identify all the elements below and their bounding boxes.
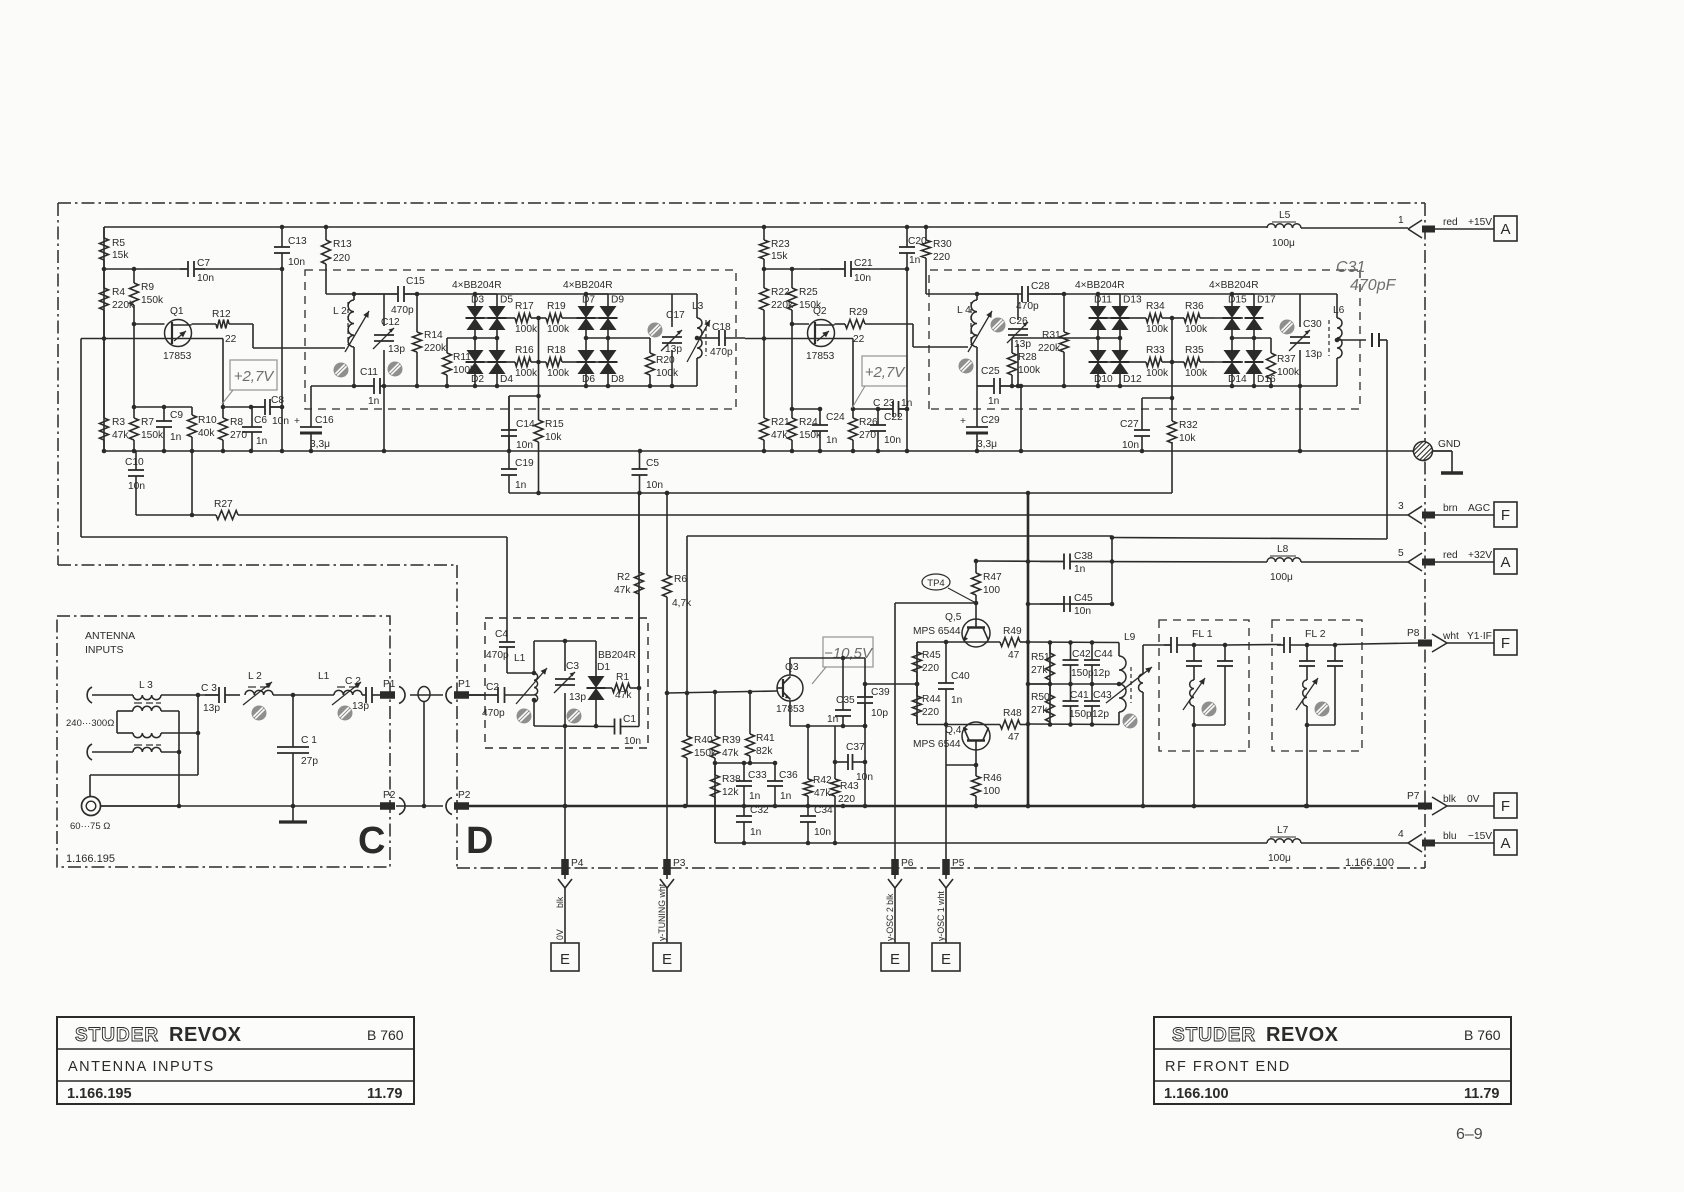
trimmer adjustment	[959, 359, 974, 374]
varactor diode D3	[466, 295, 485, 331]
svg-text:C3: C3	[566, 661, 579, 672]
svg-text:wht: wht	[1442, 631, 1459, 642]
resistor R45	[913, 642, 942, 684]
svg-text:D12: D12	[1123, 374, 1142, 385]
test point TP4	[922, 574, 976, 603]
module E reference box	[881, 943, 909, 971]
trimmer adjustment	[1280, 320, 1295, 335]
wire C31 feedback line	[1386, 340, 1388, 539]
wire L6 tap to C31	[1335, 338, 1340, 343]
capacitor C42	[1063, 643, 1094, 685]
svg-text:1n: 1n	[750, 827, 761, 838]
resistor R32	[1168, 398, 1199, 444]
svg-text:D16: D16	[1257, 374, 1276, 385]
svg-text:1n: 1n	[170, 432, 181, 443]
svg-text:220k: 220k	[424, 343, 447, 354]
svg-text:3: 3	[1398, 501, 1404, 512]
resistor R51	[1031, 642, 1055, 684]
capacitor C27	[1120, 398, 1150, 451]
resistor R14	[413, 294, 447, 386]
svg-text:220: 220	[333, 253, 350, 264]
svg-text:R22: R22	[771, 287, 790, 298]
svg-text:blk: blk	[1443, 794, 1457, 805]
svg-text:R41: R41	[756, 733, 775, 744]
svg-text:E: E	[941, 951, 951, 968]
node varactor mid tie	[586, 337, 608, 339]
resistor R48	[1000, 708, 1028, 743]
svg-text:R27: R27	[214, 499, 233, 510]
svg-text:1.166.100: 1.166.100	[1164, 1086, 1229, 1102]
capacitor C6	[242, 407, 267, 451]
svg-text:150p: 150p	[1071, 668, 1094, 679]
capacitor C34	[800, 805, 833, 843]
svg-text:1n: 1n	[368, 396, 379, 407]
coax connector 60-75 ohm	[70, 797, 110, 833]
inductor L1 variable	[514, 653, 538, 702]
capacitor C24	[812, 409, 845, 451]
capacitor C2a	[345, 676, 380, 712]
svg-text:100μ: 100μ	[1270, 572, 1293, 583]
svg-text:40k: 40k	[198, 428, 215, 439]
svg-text:10n: 10n	[1122, 440, 1139, 451]
svg-text:C2: C2	[486, 682, 499, 693]
wire R51/R50	[1028, 683, 1050, 685]
svg-text:P2: P2	[458, 790, 471, 801]
svg-text:10n: 10n	[516, 440, 533, 451]
capacitor C37	[835, 742, 873, 783]
wire FL2 bottom rail	[1306, 706, 1308, 725]
inductor FL2 variable	[1303, 680, 1307, 706]
svg-text:R50: R50	[1031, 692, 1050, 703]
svg-text:5: 5	[1398, 548, 1404, 559]
varactor diode D8	[599, 350, 625, 385]
wire -15V rail	[715, 842, 1267, 844]
svg-text:47k: 47k	[614, 585, 631, 596]
capacitor C45	[1040, 593, 1112, 617]
svg-text:C45: C45	[1074, 593, 1093, 604]
svg-text:MPS 6544: MPS 6544	[913, 739, 961, 750]
svg-text:R7: R7	[141, 417, 154, 428]
svg-text:C37: C37	[846, 742, 865, 753]
svg-text:+2,7V: +2,7V	[865, 364, 907, 381]
svg-text:Q3: Q3	[785, 662, 799, 673]
inductor L8	[1267, 544, 1301, 583]
trimmer adjustment	[334, 363, 349, 378]
wire P4 drop	[564, 726, 566, 859]
varactor diode D16	[1245, 350, 1277, 385]
resistor R36	[1172, 301, 1215, 335]
svg-text:R4: R4	[112, 287, 125, 298]
svg-text:+: +	[294, 416, 300, 427]
svg-text:150k: 150k	[141, 430, 164, 441]
resistor R47	[972, 561, 1003, 603]
wire FL1 bottom rail	[1193, 706, 1195, 725]
resistor R9	[130, 269, 164, 324]
svg-text:GND: GND	[1438, 439, 1461, 450]
connector P7 blk 0V	[1407, 791, 1494, 815]
resistor R44	[913, 684, 942, 724]
inductor L9 secondary	[1139, 645, 1144, 806]
wire C26 column	[1017, 294, 1019, 320]
trimmer adjustment	[517, 709, 532, 724]
capacitor C2	[468, 682, 534, 719]
svg-text:47k: 47k	[615, 690, 632, 701]
ground bar under C1	[292, 806, 294, 822]
capacitor C11	[354, 367, 384, 407]
svg-text:10k: 10k	[1179, 433, 1196, 444]
resistor R25	[788, 269, 822, 324]
svg-text:R24: R24	[799, 417, 818, 428]
svg-text:6–9: 6–9	[1456, 1126, 1483, 1143]
svg-text:D8: D8	[611, 374, 624, 385]
svg-text:A: A	[1500, 554, 1510, 571]
svg-text:D11: D11	[1094, 295, 1112, 306]
svg-text:R14: R14	[424, 330, 443, 341]
inductor L2 antenna variable	[245, 671, 273, 695]
svg-text:−10,5V: −10,5V	[824, 645, 874, 662]
variable capacitor C3	[554, 661, 586, 703]
svg-text:10n: 10n	[197, 273, 214, 284]
svg-text:100k: 100k	[547, 324, 570, 335]
varactor diode D11	[1089, 295, 1113, 331]
capacitor C13	[274, 227, 307, 451]
inductor FL1 variable	[1190, 680, 1194, 706]
wire R45/R44 divider	[916, 642, 918, 724]
svg-text:10n: 10n	[884, 435, 901, 446]
connector P8 wht Y1·IF	[1407, 628, 1494, 652]
capacitor C15	[354, 276, 425, 316]
capacitor C41	[1063, 684, 1092, 725]
svg-text:P3: P3	[673, 858, 686, 869]
capacitor C16	[294, 386, 334, 451]
svg-text:+15V: +15V	[1468, 217, 1492, 228]
capacitor C21	[820, 258, 873, 284]
svg-text:C18: C18	[712, 322, 731, 333]
svg-text:P6: P6	[901, 858, 914, 869]
wire balanced link	[161, 710, 179, 712]
wire	[585, 330, 587, 350]
svg-text:10n: 10n	[646, 480, 663, 491]
wire tie to R11	[447, 337, 475, 339]
svg-text:y-OSC 1 wht: y-OSC 1 wht	[936, 891, 946, 941]
connector box F	[1494, 793, 1517, 818]
svg-text:47k: 47k	[722, 748, 739, 759]
svg-text:E: E	[662, 951, 672, 968]
inductor L3 secondary lower	[117, 731, 200, 738]
wire tank2 bottom rail	[977, 385, 994, 387]
svg-text:C11: C11	[360, 367, 378, 378]
svg-text:100μ: 100μ	[1272, 238, 1295, 249]
capacitor C8	[251, 395, 289, 427]
svg-text:4,7k: 4,7k	[672, 598, 692, 609]
svg-text:R36: R36	[1185, 301, 1204, 312]
svg-text:C28: C28	[1031, 281, 1050, 292]
svg-text:R15: R15	[545, 419, 564, 430]
wire TP4 feed	[895, 602, 976, 604]
trimmer adjustment	[648, 323, 663, 338]
svg-text:R18: R18	[547, 345, 566, 356]
varactor diode D7	[577, 295, 596, 331]
wire	[1097, 294, 1099, 306]
svg-text:Q2: Q2	[813, 306, 827, 317]
node varactor mid tie	[1232, 337, 1254, 339]
wire R38 drop corner	[714, 763, 716, 843]
svg-text:C17: C17	[666, 310, 685, 321]
wire R9 column	[133, 324, 135, 407]
wire C19/C5 rail	[509, 492, 1172, 494]
wire Q3 base line	[667, 691, 777, 693]
svg-text:13p: 13p	[665, 344, 682, 355]
node bias rail1	[134, 406, 192, 408]
svg-text:10n: 10n	[814, 827, 831, 838]
svg-text:1n: 1n	[951, 695, 962, 706]
capacitor C39	[857, 684, 890, 726]
svg-text:C7: C7	[197, 258, 210, 269]
svg-text:C42: C42	[1072, 649, 1091, 660]
svg-text:R9: R9	[141, 282, 154, 293]
svg-text:R42: R42	[813, 775, 832, 786]
svg-text:D15: D15	[1228, 295, 1247, 306]
wire	[1097, 374, 1099, 386]
svg-text:R32: R32	[1179, 420, 1198, 431]
svg-text:R38: R38	[722, 774, 741, 785]
svg-text:470p: 470p	[1016, 301, 1039, 312]
svg-text:RF FRONT END: RF FRONT END	[1165, 1059, 1291, 1075]
svg-text:100k: 100k	[1146, 368, 1169, 379]
svg-text:1.166.195: 1.166.195	[67, 1086, 132, 1102]
svg-text:470p: 470p	[710, 347, 733, 358]
svg-text:R21: R21	[771, 417, 790, 428]
svg-text:D10: D10	[1094, 374, 1113, 385]
capacitor C29	[960, 386, 1000, 451]
svg-text:R33: R33	[1146, 345, 1165, 356]
resistor R15	[534, 396, 564, 493]
wire	[585, 294, 587, 306]
svg-text:C25: C25	[981, 366, 1000, 377]
svg-text:C1: C1	[623, 714, 636, 725]
wire Q2 source line	[745, 338, 853, 340]
svg-text:3,3μ: 3,3μ	[310, 439, 330, 450]
ground GND terminal	[1413, 439, 1464, 473]
svg-text:Y1·IF: Y1·IF	[1467, 631, 1492, 642]
svg-text:y-TUNING wht: y-TUNING wht	[657, 883, 667, 941]
wire tank2 ground drop	[1020, 386, 1022, 451]
wire tank1 ground drop	[383, 386, 385, 451]
svg-text:D7: D7	[582, 295, 595, 306]
svg-text:C15: C15	[406, 276, 425, 287]
resistor R21	[760, 338, 791, 451]
svg-text:R17: R17	[515, 301, 534, 312]
svg-text:AGC: AGC	[1468, 503, 1490, 514]
svg-text:R19: R19	[547, 301, 566, 312]
wire P1 entry	[468, 694, 498, 696]
varactor diode D17	[1245, 295, 1277, 331]
wire R25 column	[791, 324, 793, 409]
wire tank2 ground drop right	[1299, 386, 1301, 451]
wire tie to R20	[608, 337, 650, 339]
svg-text:R51: R51	[1031, 652, 1050, 663]
svg-text:100k: 100k	[656, 368, 679, 379]
resistor R4	[100, 269, 135, 338]
resistor R41	[746, 692, 776, 763]
wire	[474, 374, 476, 386]
svg-text:E: E	[560, 951, 570, 968]
wire coax to bus	[100, 805, 180, 807]
capacitor C22	[870, 409, 903, 451]
svg-text:10n: 10n	[1074, 606, 1091, 617]
wire inner right column	[638, 618, 640, 727]
capacitor C5	[632, 451, 664, 493]
svg-text:0V: 0V	[555, 929, 565, 940]
capacitor C25	[977, 366, 1018, 407]
svg-text:100μ: 100μ	[1268, 853, 1291, 864]
svg-text:100: 100	[983, 786, 1000, 797]
svg-text:REVOX: REVOX	[169, 1024, 242, 1046]
svg-text:150k: 150k	[141, 295, 164, 306]
resistor R17	[507, 301, 539, 335]
svg-text:13p: 13p	[203, 703, 220, 714]
svg-text:A: A	[1500, 835, 1510, 852]
svg-text:13p: 13p	[569, 692, 586, 703]
wire patch to 0V	[423, 702, 425, 807]
wire L9 secondary to FL1	[1143, 644, 1171, 646]
varactor diode D1	[587, 676, 606, 700]
svg-text:R40: R40	[694, 735, 713, 746]
wire	[1097, 330, 1099, 350]
svg-text:C6: C6	[254, 415, 267, 426]
svg-text:E: E	[890, 951, 900, 968]
svg-text:C19: C19	[515, 458, 534, 469]
wire Q1 gate line	[134, 323, 165, 325]
varactor diode D13	[1111, 295, 1143, 331]
node varactor mid tie	[1098, 337, 1120, 339]
varactor diode D2	[466, 350, 485, 385]
capacitor C1	[614, 714, 641, 747]
svg-text:C38: C38	[1074, 551, 1093, 562]
svg-text:FL 1: FL 1	[1192, 628, 1213, 640]
svg-text:D1: D1	[597, 662, 610, 673]
wire Q3 collector row	[789, 658, 791, 675]
wire bias tie to Q4/Q5	[865, 683, 917, 685]
svg-text:27p: 27p	[301, 756, 318, 767]
connector box F	[1494, 502, 1517, 527]
svg-text:C 23: C 23	[873, 398, 895, 409]
svg-text:L8: L8	[1277, 544, 1289, 555]
wire osc tank rows	[1028, 641, 1119, 644]
wire	[474, 330, 476, 350]
svg-text:D: D	[466, 820, 493, 862]
resistor R29	[835, 307, 914, 345]
svg-text:100k: 100k	[515, 324, 538, 335]
svg-text:15k: 15k	[112, 250, 129, 261]
svg-text:220: 220	[922, 663, 939, 674]
capacitor C31 handwritten	[1336, 259, 1397, 347]
inductor L3 secondary upper	[117, 706, 161, 733]
wire 0V bus	[104, 450, 1452, 452]
node bias rail2	[223, 406, 265, 408]
wire	[1231, 374, 1233, 386]
svg-text:ANTENNA INPUTS: ANTENNA INPUTS	[68, 1059, 215, 1075]
svg-text:11.79: 11.79	[367, 1086, 403, 1102]
svg-text:22: 22	[853, 334, 865, 345]
capacitor C23	[873, 398, 912, 417]
svg-text:C16: C16	[315, 415, 334, 426]
svg-text:R5: R5	[112, 238, 125, 249]
svg-text:C 3: C 3	[201, 683, 217, 694]
svg-text:P1: P1	[458, 679, 471, 690]
svg-text:17853: 17853	[806, 351, 835, 362]
resistor R43	[831, 726, 860, 843]
svg-text:1n: 1n	[909, 255, 920, 266]
capacitor C38	[1040, 551, 1112, 575]
wire antenna top	[92, 694, 133, 696]
wire +15V top bus	[104, 226, 1267, 228]
svg-text:4×BB204R: 4×BB204R	[452, 280, 502, 291]
node C7 row	[104, 268, 188, 270]
resistor R18	[539, 345, 578, 379]
svg-text:MPS 6544: MPS 6544	[913, 626, 961, 637]
capacitor C40	[938, 642, 970, 724]
svg-text:4: 4	[1398, 829, 1404, 840]
resistor R10	[188, 407, 218, 451]
svg-text:47: 47	[1008, 732, 1020, 743]
svg-text:C 2: C 2	[345, 676, 361, 687]
svg-text:P2: P2	[383, 790, 396, 801]
svg-text:10k: 10k	[545, 432, 562, 443]
connector box F	[1494, 630, 1517, 655]
svg-text:R23: R23	[771, 239, 790, 250]
svg-text:R48: R48	[1003, 708, 1022, 719]
svg-text:1n: 1n	[1074, 564, 1085, 575]
tuned circuit box dashed	[305, 270, 736, 409]
capacitor C7	[180, 258, 214, 284]
capacitor C36	[767, 763, 798, 806]
svg-text:C43: C43	[1093, 690, 1112, 701]
capacitor C10	[125, 451, 145, 515]
svg-text:47: 47	[1008, 650, 1020, 661]
svg-text:220: 220	[838, 794, 855, 805]
svg-text:P8: P8	[1407, 628, 1420, 639]
svg-text:blu: blu	[1443, 831, 1457, 842]
wire L3 tap to C18	[695, 336, 700, 341]
wire C4 to L1	[507, 672, 534, 674]
wire Q3 emitter row	[789, 701, 791, 726]
svg-text:R1: R1	[616, 672, 629, 683]
svg-text:STUDER: STUDER	[75, 1025, 159, 1046]
wire FL1 ground drop	[1193, 725, 1195, 806]
svg-text:C35: C35	[836, 695, 855, 706]
svg-text:C14: C14	[516, 419, 535, 430]
capacitor C28	[977, 281, 1064, 312]
varactor diode D15	[1223, 295, 1248, 331]
wire tank1 bottom rail	[311, 385, 374, 387]
voltage callout +2,7V	[852, 356, 907, 408]
resistor R20	[646, 338, 679, 386]
wire	[474, 294, 476, 306]
svg-text:D4: D4	[500, 374, 513, 385]
svg-text:L1: L1	[514, 653, 526, 664]
voltage callout +2,7V	[222, 360, 277, 404]
svg-text:B 760: B 760	[367, 1027, 404, 1043]
wire inter-module P1	[410, 694, 443, 696]
svg-text:27k: 27k	[1031, 665, 1048, 676]
capacitor C35	[827, 658, 855, 726]
wire R10 column to AGC	[191, 451, 193, 515]
resistor R30	[922, 227, 953, 294]
svg-text:R44: R44	[922, 694, 941, 705]
svg-text:240···300Ω: 240···300Ω	[66, 718, 114, 729]
thick oscillator bus	[1027, 493, 1030, 806]
